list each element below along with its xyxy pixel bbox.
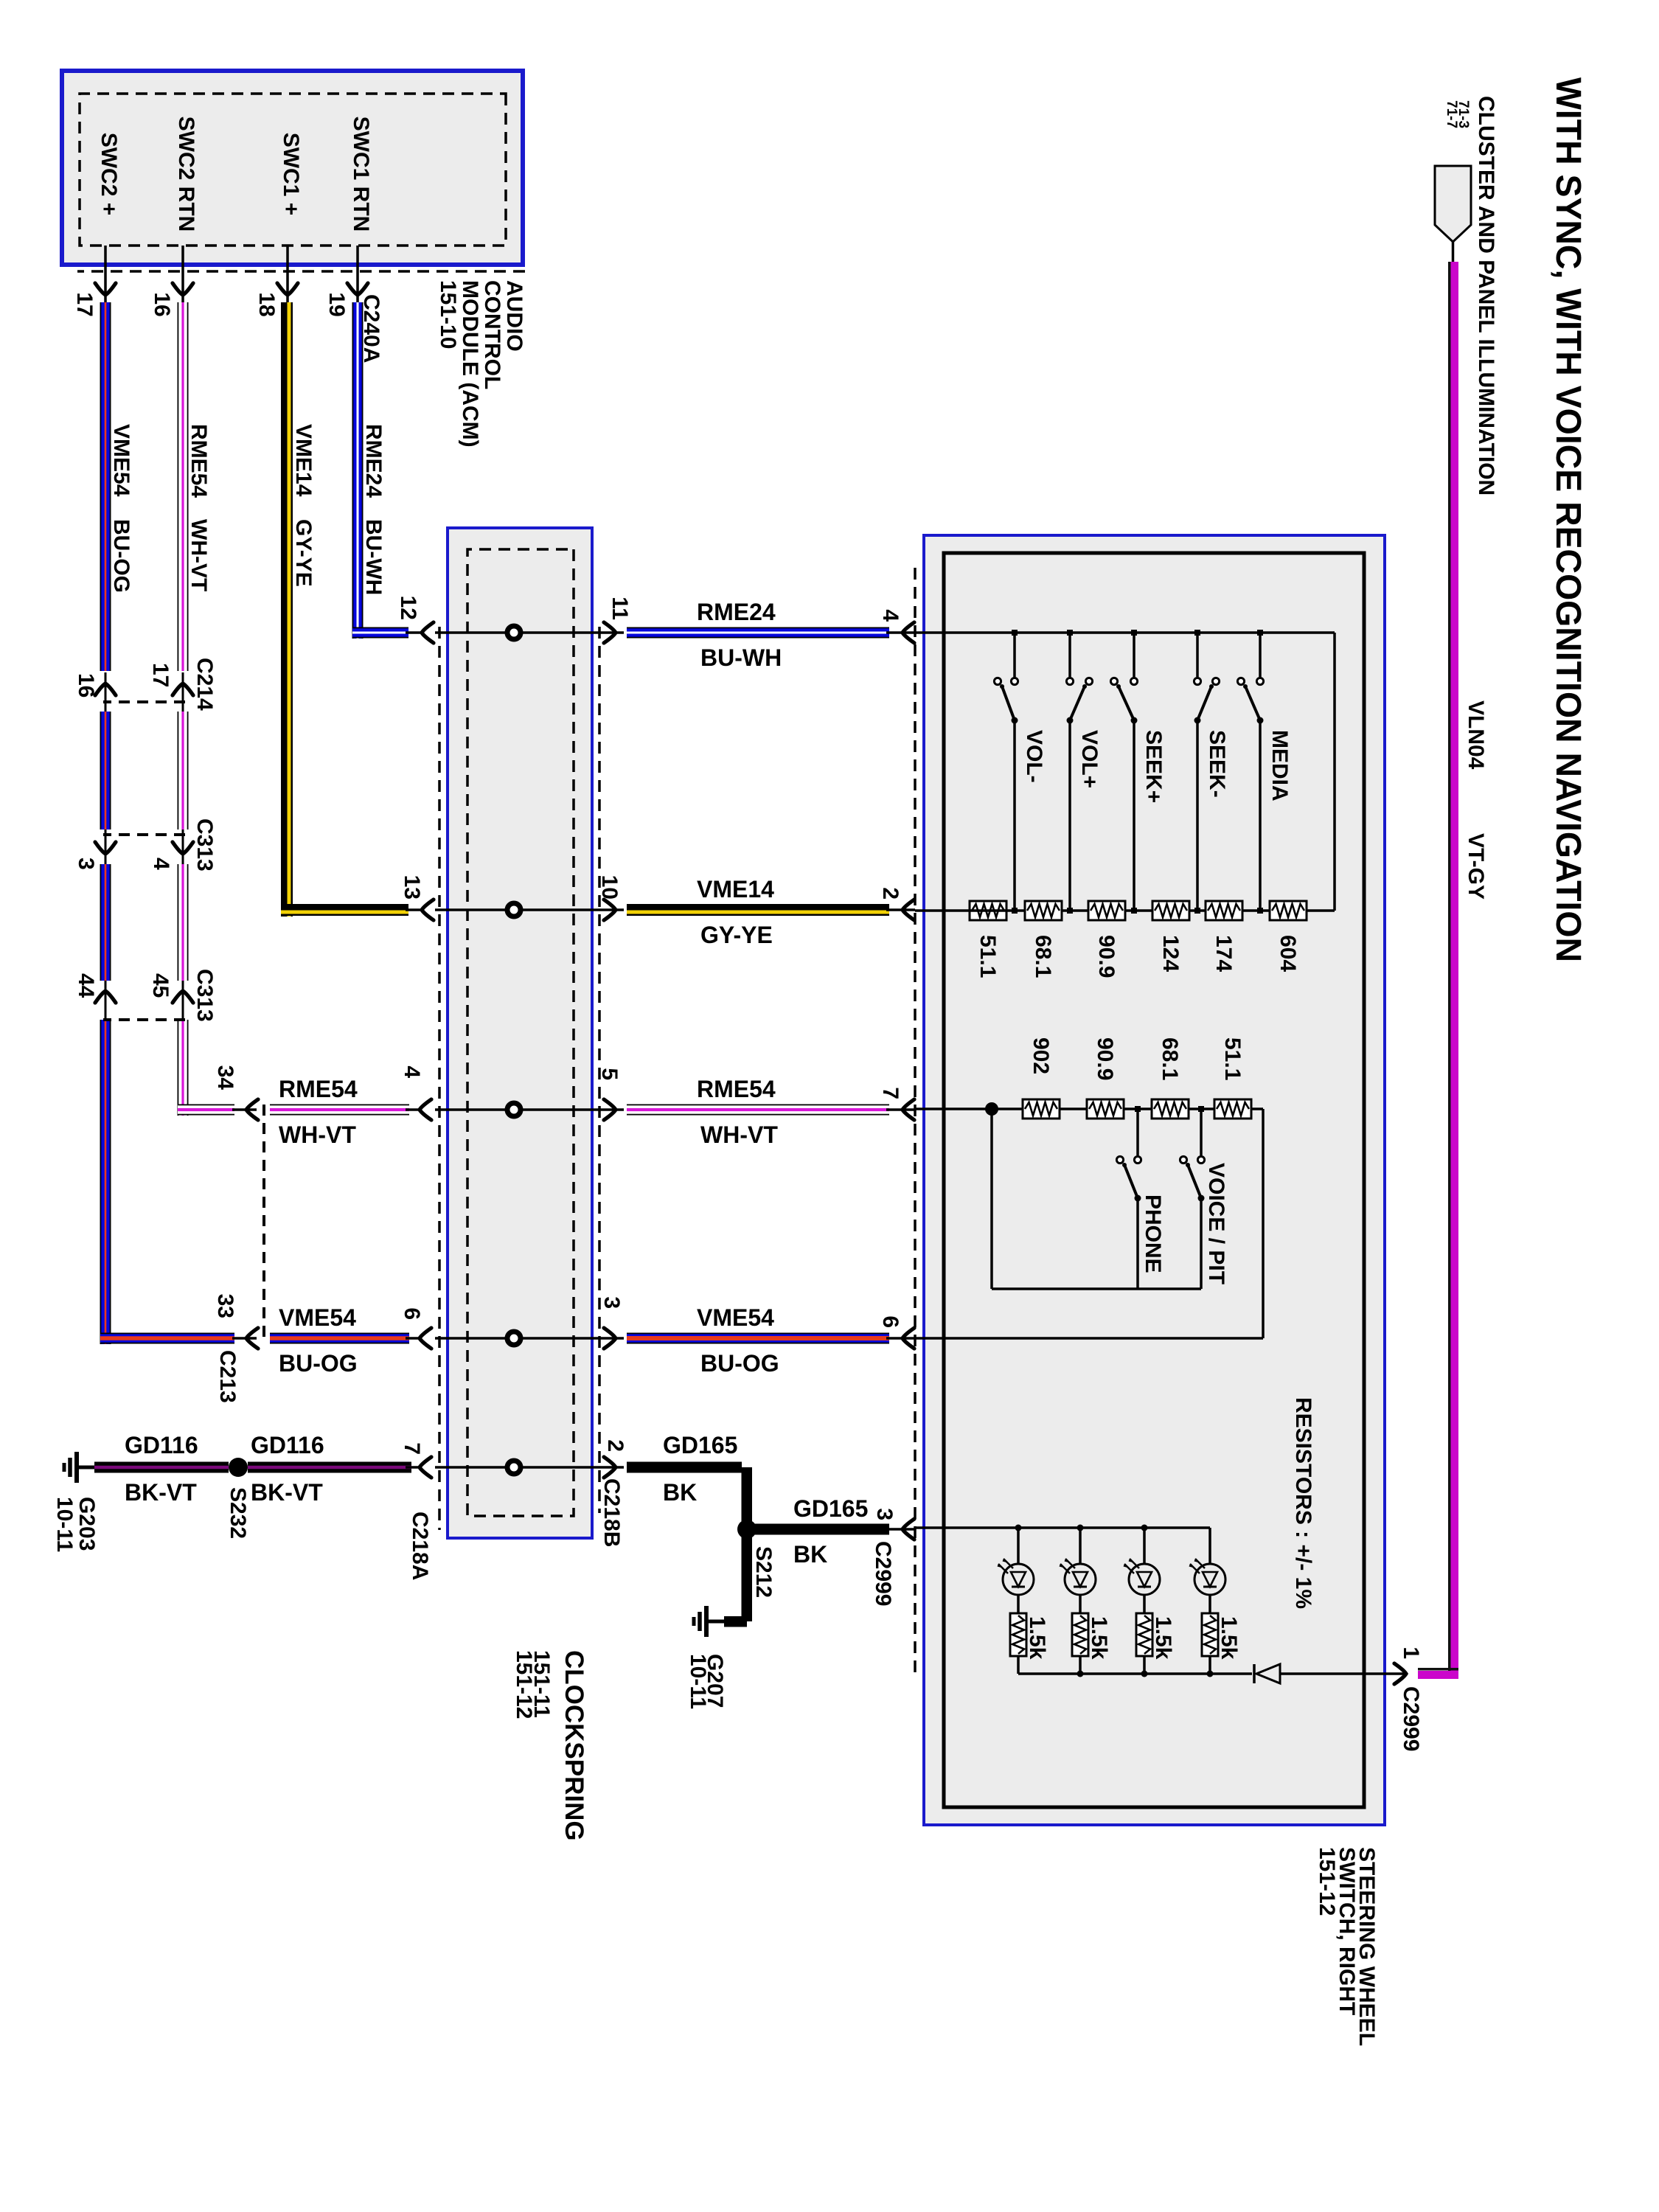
svg-text:GY-YE: GY-YE (291, 519, 316, 587)
svg-text:WITH SYNC, WITH VOICE RECOGNIT: WITH SYNC, WITH VOICE RECOGNITION NAVIGA… (1548, 77, 1587, 962)
svg-text:6: 6 (878, 1315, 902, 1328)
svg-text:VME14: VME14 (697, 876, 774, 902)
svg-text:VME54: VME54 (697, 1304, 774, 1331)
svg-text:C214: C214 (192, 658, 217, 711)
svg-text:CLUSTER AND PANEL ILLUMINATION: CLUSTER AND PANEL ILLUMINATION (1474, 96, 1498, 495)
svg-text:BK: BK (793, 1541, 827, 1568)
svg-text:124: 124 (1158, 935, 1183, 972)
svg-text:44: 44 (74, 973, 98, 998)
svg-text:BU-OG: BU-OG (109, 519, 133, 593)
svg-text:7: 7 (878, 1087, 902, 1099)
svg-text:11: 11 (608, 597, 632, 620)
svg-text:BU-WH: BU-WH (361, 519, 386, 595)
svg-text:604: 604 (1276, 935, 1300, 972)
svg-text:BU-OG: BU-OG (700, 1350, 779, 1377)
svg-text:GY-YE: GY-YE (700, 922, 773, 948)
svg-text:S212: S212 (751, 1546, 776, 1598)
svg-text:4: 4 (149, 858, 173, 870)
svg-text:1.5k: 1.5k (1087, 1616, 1111, 1660)
svg-text:CONTROL: CONTROL (480, 280, 504, 389)
svg-text:SWC2 RTN: SWC2 RTN (174, 116, 198, 232)
svg-text:3: 3 (599, 1296, 624, 1309)
svg-text:SWC2 +: SWC2 + (97, 133, 121, 216)
svg-text:151-10: 151-10 (436, 280, 460, 349)
svg-text:C2999: C2999 (871, 1541, 895, 1606)
svg-text:2: 2 (878, 887, 902, 900)
svg-text:C218B: C218B (599, 1478, 624, 1547)
svg-text:17: 17 (72, 292, 97, 316)
svg-text:GD116: GD116 (251, 1432, 324, 1458)
svg-text:17: 17 (148, 663, 173, 687)
svg-text:MEDIA: MEDIA (1267, 730, 1292, 801)
svg-text:33: 33 (213, 1294, 237, 1318)
svg-text:BU-OG: BU-OG (279, 1350, 358, 1377)
svg-text:BK-VT: BK-VT (125, 1479, 197, 1506)
svg-text:VOICE / PIT: VOICE / PIT (1204, 1163, 1228, 1284)
svg-text:SEEK-: SEEK- (1205, 730, 1229, 798)
svg-text:18: 18 (254, 292, 279, 316)
svg-text:WH-VT: WH-VT (187, 519, 211, 591)
svg-text:151-12: 151-12 (512, 1650, 536, 1719)
svg-text:C213: C213 (215, 1350, 240, 1403)
svg-text:BU-WH: BU-WH (700, 644, 782, 671)
svg-text:3: 3 (74, 858, 98, 870)
svg-text:16: 16 (74, 673, 98, 698)
svg-text:71-7: 71-7 (1444, 100, 1459, 128)
svg-text:4: 4 (878, 609, 902, 622)
svg-text:C2999: C2999 (1399, 1686, 1423, 1751)
svg-text:16: 16 (150, 292, 174, 316)
svg-text:C313: C313 (192, 969, 217, 1022)
svg-text:13: 13 (400, 875, 424, 900)
svg-text:1.5k: 1.5k (1151, 1616, 1175, 1660)
svg-text:GD165: GD165 (793, 1495, 868, 1522)
svg-text:10-11: 10-11 (686, 1654, 710, 1709)
svg-text:7: 7 (400, 1442, 424, 1455)
svg-text:RME54: RME54 (279, 1076, 358, 1102)
svg-text:45: 45 (148, 973, 173, 998)
svg-text:10-11: 10-11 (52, 1497, 77, 1552)
svg-text:BK: BK (663, 1479, 697, 1506)
svg-text:90.9: 90.9 (1094, 935, 1119, 978)
svg-text:G203: G203 (74, 1497, 99, 1551)
svg-text:SWC1 RTN: SWC1 RTN (349, 116, 373, 232)
svg-text:VOL+: VOL+ (1077, 730, 1102, 788)
svg-text:RME24: RME24 (697, 599, 776, 625)
svg-text:VT-GY: VT-GY (1464, 833, 1488, 900)
svg-text:RESISTORS : +/- 1%: RESISTORS : +/- 1% (1291, 1397, 1315, 1609)
svg-text:RME24: RME24 (361, 424, 386, 498)
svg-text:VME54: VME54 (279, 1304, 356, 1331)
svg-text:MODULE (ACM): MODULE (ACM) (458, 280, 482, 448)
svg-text:S232: S232 (226, 1487, 250, 1539)
svg-text:C218A: C218A (408, 1512, 432, 1580)
svg-text:10: 10 (597, 875, 622, 900)
svg-text:90.9: 90.9 (1093, 1037, 1117, 1080)
svg-text:GD165: GD165 (663, 1432, 737, 1458)
svg-text:VME14: VME14 (291, 424, 316, 497)
svg-text:CLOCKSPRING: CLOCKSPRING (560, 1650, 588, 1841)
svg-text:5: 5 (597, 1068, 622, 1080)
svg-text:VLN04: VLN04 (1464, 700, 1488, 770)
svg-text:51.1: 51.1 (1220, 1037, 1245, 1080)
svg-text:3: 3 (872, 1508, 897, 1520)
svg-text:4: 4 (400, 1065, 424, 1078)
svg-text:PHONE: PHONE (1141, 1194, 1165, 1273)
svg-text:51.1: 51.1 (975, 935, 1000, 978)
svg-text:1.5k: 1.5k (1217, 1616, 1241, 1660)
svg-text:34: 34 (213, 1065, 237, 1091)
svg-text:1: 1 (1399, 1646, 1423, 1659)
svg-text:151-12: 151-12 (1315, 1847, 1339, 1916)
svg-text:RME54: RME54 (697, 1076, 776, 1102)
svg-text:WH-VT: WH-VT (279, 1121, 356, 1148)
svg-text:68.1: 68.1 (1158, 1037, 1182, 1080)
svg-text:1.5k: 1.5k (1025, 1616, 1049, 1660)
svg-text:C313: C313 (192, 818, 217, 872)
svg-text:174: 174 (1211, 935, 1236, 972)
svg-text:SWC1 +: SWC1 + (279, 133, 303, 216)
svg-text:2: 2 (603, 1439, 627, 1452)
svg-text:WH-VT: WH-VT (700, 1121, 778, 1148)
svg-text:VOL-: VOL- (1022, 730, 1046, 783)
svg-text:RME54: RME54 (187, 424, 211, 498)
svg-text:12: 12 (396, 596, 420, 620)
svg-text:19: 19 (324, 292, 349, 316)
svg-text:GD116: GD116 (125, 1432, 198, 1458)
svg-text:VME54: VME54 (109, 424, 133, 497)
svg-text:AUDIO: AUDIO (502, 280, 526, 352)
svg-text:68.1: 68.1 (1031, 935, 1055, 978)
svg-text:BK-VT: BK-VT (251, 1479, 323, 1506)
svg-text:902: 902 (1029, 1037, 1053, 1074)
svg-text:SEEK+: SEEK+ (1141, 730, 1166, 803)
svg-text:6: 6 (400, 1307, 424, 1320)
